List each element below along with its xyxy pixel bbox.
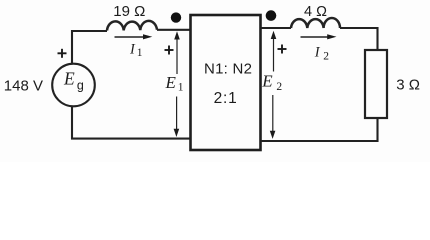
svg-text:g: g (77, 78, 84, 92)
svg-text:2: 2 (323, 51, 329, 63)
transformer T box (191, 15, 261, 150)
svg-text:1: 1 (137, 47, 143, 59)
label I1 (129, 41, 143, 59)
svg-text:E: E (261, 72, 273, 91)
svg-text:2: 2 (276, 81, 282, 93)
polarity dot secondary (266, 10, 277, 21)
voltage arrow E2 (double-headed) (270, 31, 277, 139)
voltage source Eg (52, 64, 95, 107)
current arrow I1 (115, 34, 153, 39)
polarity dot primary (171, 12, 181, 22)
load resistor 3 Ω (rect) (365, 50, 387, 118)
plus sign of E1 (165, 46, 174, 55)
voltage arrow E1 (double-headed) (174, 31, 180, 137)
svg-text:4 Ω: 4 Ω (304, 4, 327, 20)
svg-text:I: I (314, 44, 321, 60)
resistor 4 Ω (coil symbol) (291, 18, 340, 28)
current arrow I2 (301, 34, 337, 39)
label I2 (314, 44, 329, 62)
svg-text:148 V: 148 V (4, 78, 43, 95)
svg-text:1: 1 (178, 81, 184, 93)
label E1 (165, 73, 184, 94)
plus sign of E2 (278, 45, 287, 54)
svg-text:19 Ω: 19 Ω (113, 3, 145, 20)
svg-text:2:1: 2:1 (214, 90, 238, 107)
svg-text:N1: N2: N1: N2 (204, 60, 252, 77)
wire right vertical + bottom-right rail (261, 118, 378, 141)
wire top-left rail (72, 30, 190, 64)
svg-text:3 Ω: 3 Ω (396, 77, 420, 94)
svg-text:I: I (129, 41, 136, 57)
plus sign of source (58, 49, 67, 58)
resistor 19 Ω (coil symbol) (107, 21, 157, 31)
svg-text:E: E (165, 73, 177, 92)
wire left vertical + bottom-left rail (72, 106, 190, 138)
wire top-right rail (261, 28, 378, 50)
svg-text:E: E (63, 69, 75, 89)
label E2 (261, 72, 282, 93)
